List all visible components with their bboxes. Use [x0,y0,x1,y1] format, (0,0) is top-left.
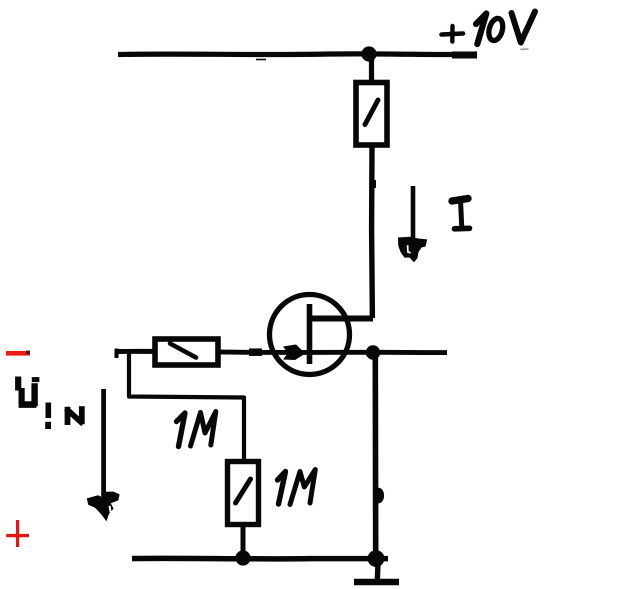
wire bottom rail [132,556,388,562]
gate arrow [283,345,306,361]
label 1M gate resistor [177,412,216,447]
ground bar [354,579,399,585]
label U [18,377,39,407]
wire middle gate line [115,351,447,352]
input arrow Uin [101,389,106,500]
current arrow I [411,186,416,245]
value slash R1 [365,100,378,125]
node bottom right junction [368,550,385,567]
junction blob on wire [373,488,384,504]
wire R3 to bottom rail [241,525,246,557]
label subscript i [45,403,51,419]
wire L gate to R3 [129,353,244,459]
ground stub [375,563,381,581]
label I [452,199,470,229]
wire R1 to drain [369,145,375,318]
label minus (red) [6,351,30,356]
node top junction [361,46,376,61]
wire drain horizontal [311,316,373,322]
label 1M lower resistor [278,470,316,505]
label subscript N [66,406,83,425]
resistor R2 [155,339,218,365]
transistor channel bar [307,304,313,364]
value slash R3 [236,479,251,503]
resistor R1 [356,83,387,146]
wire source to bottom rail [372,356,378,558]
node bottom left junction [235,550,250,565]
node source junction [366,345,380,359]
transistor Q1 circle [270,295,350,375]
value slash R2 [170,344,196,358]
resistor R3 [228,462,259,525]
label +10V [442,12,536,50]
wire stub rail to R1 [369,56,374,81]
label plus (red) [16,520,19,547]
wire top +10V rail [118,54,477,60]
